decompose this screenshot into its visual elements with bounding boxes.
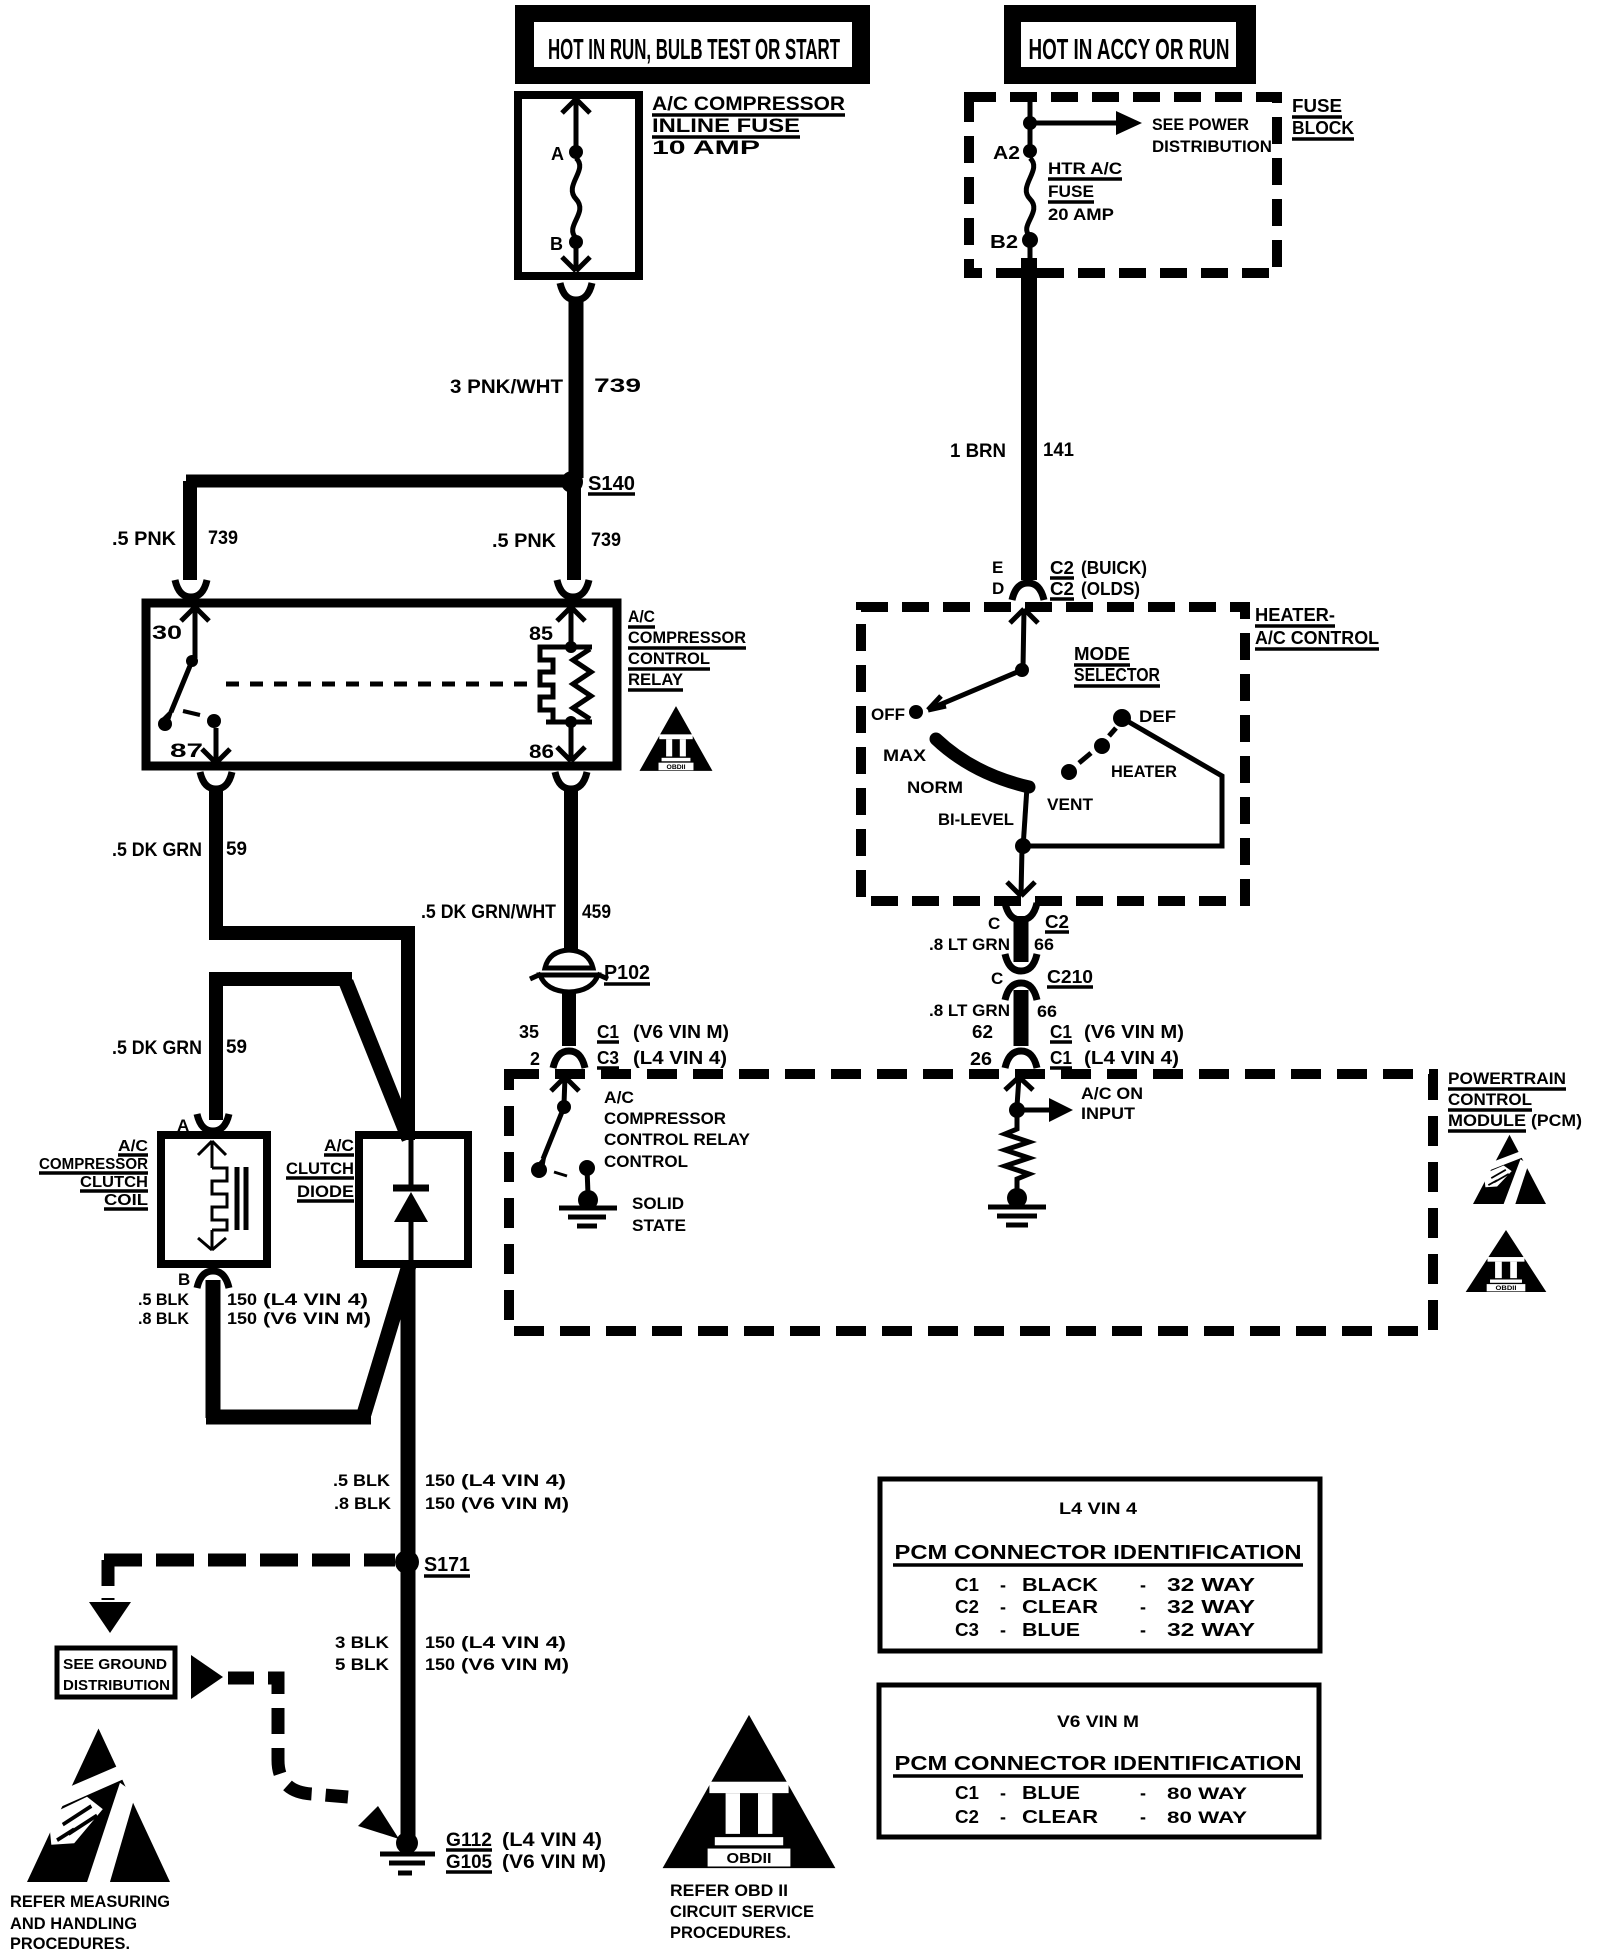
svg-text:COIL: COIL <box>104 1192 148 1209</box>
svg-text:A/C CONTROL: A/C CONTROL <box>1255 628 1379 648</box>
svg-text:VENT: VENT <box>1047 795 1094 814</box>
svg-text:(L4 VIN 4): (L4 VIN 4) <box>263 1290 368 1309</box>
ESD warning triangle (bottom left) <box>27 1729 170 1882</box>
svg-text:CONTROL RELAY: CONTROL RELAY <box>604 1130 751 1149</box>
svg-text:.5 BLK: .5 BLK <box>333 1471 391 1490</box>
contact OFF <box>909 705 923 719</box>
svg-text:DISTRIBUTION: DISTRIBUTION <box>63 1677 170 1694</box>
fuse HTR A/C 20 AMP element <box>1026 158 1034 236</box>
OBD II triangle (bottom middle) <box>663 1715 836 1868</box>
svg-text:CLUTCH: CLUTCH <box>80 1174 148 1191</box>
svg-text:S171: S171 <box>424 1554 470 1576</box>
svg-text:COMPRESSOR: COMPRESSOR <box>628 628 746 647</box>
svg-text:C: C <box>988 914 1000 933</box>
relay coil <box>540 641 592 728</box>
svg-text:PROCEDURES.: PROCEDURES. <box>670 1923 791 1942</box>
relay pin 86 arrow <box>557 722 585 761</box>
svg-text:85: 85 <box>529 624 553 645</box>
solid state ground <box>578 1190 598 1210</box>
contact DEF <box>1113 709 1131 727</box>
wire to PCM pin 35/2 <box>562 990 576 1046</box>
svg-text:.8 BLK: .8 BLK <box>138 1309 190 1328</box>
relay pin 30 arrow <box>181 607 209 658</box>
terminal B <box>569 235 583 249</box>
svg-text:-: - <box>1140 1597 1146 1617</box>
svg-text:C1: C1 <box>955 1783 979 1803</box>
relay contact 87 <box>207 714 221 728</box>
svg-text:C1: C1 <box>1050 1022 1072 1042</box>
svg-text:MAX: MAX <box>883 746 927 765</box>
wire branch to clutch coil <box>209 972 352 986</box>
wire into fuse block <box>1028 97 1033 152</box>
svg-text:66: 66 <box>1037 1002 1057 1021</box>
fuse F1 box A/C COMPRESSOR INLINE FUSE <box>518 95 639 276</box>
svg-text:OFF: OFF <box>871 705 905 724</box>
svg-text:3 BLK: 3 BLK <box>335 1633 390 1652</box>
svg-text:CONTROL: CONTROL <box>604 1152 688 1171</box>
svg-text:(L4 VIN 4): (L4 VIN 4) <box>461 1633 566 1652</box>
svg-text:26: 26 <box>970 1049 992 1069</box>
splice S171 <box>104 1554 395 1567</box>
svg-text:(V6 VIN M): (V6 VIN M) <box>461 1655 569 1674</box>
svg-text:REFER MEASURING: REFER MEASURING <box>10 1892 170 1911</box>
svg-text:1 BRN: 1 BRN <box>950 441 1006 462</box>
svg-text:SEE POWER: SEE POWER <box>1152 115 1249 134</box>
wire DEF to common node <box>1026 718 1222 846</box>
svg-text:MODE: MODE <box>1074 644 1130 664</box>
svg-text:DIODE: DIODE <box>297 1182 354 1201</box>
mode selector rotor arc <box>936 739 1029 787</box>
svg-text:59: 59 <box>226 1037 247 1058</box>
contact VENT <box>1061 764 1077 780</box>
svg-text:BLACK: BLACK <box>1022 1575 1098 1595</box>
dashed wire from see ground distribution <box>191 1655 223 1699</box>
svg-text:PROCEDURES.: PROCEDURES. <box>10 1934 130 1950</box>
relay pin 85 arrow <box>557 607 585 645</box>
svg-text:-: - <box>1000 1620 1006 1640</box>
label A/C COMPRESSOR INLINE FUSE 10 AMP <box>652 94 845 159</box>
svg-text:80 WAY: 80 WAY <box>1167 1784 1248 1803</box>
svg-text:66: 66 <box>1034 935 1054 954</box>
svg-text:C: C <box>991 969 1003 988</box>
connector below fuse F1 <box>560 283 592 300</box>
ground G112/G105 <box>396 1832 418 1854</box>
label A/C COMPRESSOR CONTROL RELAY <box>628 607 746 690</box>
svg-text:C210: C210 <box>1047 967 1093 987</box>
svg-text:.8 LT GRN: .8 LT GRN <box>929 1001 1010 1020</box>
svg-text:30: 30 <box>152 623 182 644</box>
svg-text:A/C: A/C <box>604 1088 634 1107</box>
svg-text:MODULE: MODULE <box>1448 1111 1526 1130</box>
svg-text:459: 459 <box>582 902 611 923</box>
svg-text:(L4 VIN 4): (L4 VIN 4) <box>461 1471 566 1490</box>
svg-text:(OLDS): (OLDS) <box>1081 579 1140 599</box>
svg-text:.5 DK GRN: .5 DK GRN <box>112 840 202 861</box>
wire .5 PNK 739 (to relay 85) <box>492 488 621 580</box>
svg-text:HOT IN RUN, BULB TEST OR START: HOT IN RUN, BULB TEST OR START <box>548 34 840 66</box>
svg-text:BLUE: BLUE <box>1022 1783 1080 1803</box>
svg-text:10 AMP: 10 AMP <box>652 138 761 159</box>
svg-text:E: E <box>992 558 1003 577</box>
contact HEATER <box>1094 738 1110 754</box>
svg-text:NORM: NORM <box>907 778 963 797</box>
PCM dashed box <box>509 1074 1433 1331</box>
svg-text:DISTRIBUTION: DISTRIBUTION <box>1152 137 1272 156</box>
terminal A <box>569 145 583 159</box>
PCM connector identification table (V6 VIN M) <box>879 1685 1319 1837</box>
wire .5 BLK 150 (to S171) <box>401 1262 416 1843</box>
connector C210 pin C <box>1005 954 1037 971</box>
svg-text:P102: P102 <box>604 962 650 984</box>
splice S140 <box>186 471 635 495</box>
mode selector blade to OFF <box>932 670 1022 708</box>
svg-text:(V6 VIN M): (V6 VIN M) <box>263 1309 371 1328</box>
svg-text:-: - <box>1000 1575 1006 1595</box>
svg-text:C1: C1 <box>955 1575 979 1595</box>
relay coupling dashed line <box>226 682 538 687</box>
svg-text:(V6 VIN M): (V6 VIN M) <box>1084 1022 1184 1042</box>
svg-text:141: 141 <box>1043 440 1074 461</box>
svg-text:87: 87 <box>170 741 203 762</box>
svg-text:COMPRESSOR: COMPRESSOR <box>604 1109 726 1128</box>
svg-text:5 BLK: 5 BLK <box>335 1655 390 1674</box>
ESD symbol (PCM) <box>1473 1135 1546 1204</box>
ground (PCM) <box>1007 1188 1027 1208</box>
banner HOT IN ACCY OR RUN <box>1004 5 1256 84</box>
svg-text:(L4 VIN 4): (L4 VIN 4) <box>502 1830 602 1851</box>
svg-text:DEF: DEF <box>1139 707 1176 726</box>
svg-text:C2: C2 <box>1050 558 1074 578</box>
svg-text:150: 150 <box>425 1633 455 1652</box>
svg-text:CLUTCH: CLUTCH <box>286 1159 354 1178</box>
svg-text:INLINE FUSE: INLINE FUSE <box>652 116 800 137</box>
svg-text:A/C COMPRESSOR: A/C COMPRESSOR <box>652 94 845 115</box>
PCM relay control driver <box>551 1077 579 1104</box>
svg-text:C2: C2 <box>955 1597 979 1617</box>
svg-text:HTR A/C: HTR A/C <box>1048 159 1122 178</box>
svg-text:CONTROL: CONTROL <box>628 649 710 668</box>
wire .5 PNK 739 (left branch to relay 30) <box>112 481 238 580</box>
fuse block dashed box <box>969 97 1277 273</box>
svg-text:POWERTRAIN: POWERTRAIN <box>1448 1069 1566 1088</box>
OBD II symbol (PCM) <box>1466 1230 1547 1292</box>
svg-text:A: A <box>551 144 564 164</box>
svg-text:80 WAY: 80 WAY <box>1167 1808 1248 1827</box>
svg-text:HEATER-: HEATER- <box>1255 605 1335 625</box>
svg-text:.8 LT GRN: .8 LT GRN <box>929 935 1010 954</box>
svg-text:BLOCK: BLOCK <box>1292 118 1354 138</box>
connector C2 pin C <box>1005 903 1037 920</box>
svg-text:32 WAY: 32 WAY <box>1167 1620 1255 1640</box>
svg-text:150: 150 <box>425 1471 455 1490</box>
connector P102 <box>530 950 650 992</box>
relay A/C COMPRESSOR CONTROL RELAY box <box>146 603 617 766</box>
svg-text:C3: C3 <box>597 1048 619 1068</box>
A/C clutch diode box <box>359 1135 468 1264</box>
terminal A2 <box>1023 144 1037 158</box>
svg-text:AND HANDLING: AND HANDLING <box>10 1914 137 1933</box>
svg-text:SOLID: SOLID <box>632 1194 684 1213</box>
svg-text:A/C: A/C <box>628 607 655 626</box>
svg-text:CLEAR: CLEAR <box>1022 1597 1098 1617</box>
svg-text:COMPRESSOR: COMPRESSOR <box>39 1156 148 1173</box>
svg-text:150: 150 <box>227 1290 257 1309</box>
PCM A/C ON input <box>1005 1077 1033 1106</box>
svg-text:(L4 VIN 4): (L4 VIN 4) <box>633 1048 727 1068</box>
svg-text:.5 DK GRN: .5 DK GRN <box>112 1038 202 1059</box>
svg-text:59: 59 <box>226 839 247 860</box>
svg-text:C2: C2 <box>955 1807 979 1827</box>
svg-text:(V6 VIN M): (V6 VIN M) <box>461 1494 569 1513</box>
svg-text:G112: G112 <box>446 1830 492 1851</box>
svg-text:INPUT: INPUT <box>1081 1104 1136 1123</box>
common node <box>1023 787 1027 848</box>
svg-text:S140: S140 <box>588 473 635 495</box>
svg-text:-: - <box>1000 1597 1006 1617</box>
svg-text:-: - <box>1000 1807 1006 1827</box>
svg-text:SEE GROUND: SEE GROUND <box>63 1656 167 1673</box>
svg-text:32 WAY: 32 WAY <box>1167 1597 1255 1617</box>
svg-text:.8 BLK: .8 BLK <box>334 1494 392 1513</box>
resistor <box>1005 1110 1029 1194</box>
heater-A/C control dashed box <box>861 607 1245 901</box>
svg-text:B: B <box>178 1270 190 1289</box>
svg-text:FUSE: FUSE <box>1292 96 1342 116</box>
svg-text:A/C: A/C <box>324 1136 354 1155</box>
svg-text:CONTROL: CONTROL <box>1448 1090 1532 1109</box>
svg-text:-: - <box>1140 1807 1146 1827</box>
svg-text:REFER OBD II: REFER OBD II <box>670 1881 788 1900</box>
svg-text:-: - <box>1140 1575 1146 1595</box>
banner HOT IN RUN, BULB TEST OR START <box>515 5 870 84</box>
svg-text:32 WAY: 32 WAY <box>1167 1575 1255 1595</box>
svg-text:2: 2 <box>530 1049 540 1069</box>
svg-text:BLUE: BLUE <box>1022 1620 1080 1640</box>
dashed links VENT-HEATER-DEF <box>1079 753 1091 763</box>
wire .8 LT GRN 66 <box>1014 916 1029 962</box>
svg-text:-: - <box>1000 1783 1006 1803</box>
svg-text:L4 VIN 4: L4 VIN 4 <box>1059 1499 1138 1518</box>
svg-text:(V6 VIN M): (V6 VIN M) <box>502 1852 606 1873</box>
svg-text:STATE: STATE <box>632 1216 686 1235</box>
svg-text:.5 BLK: .5 BLK <box>138 1290 190 1309</box>
svg-text:A/C ON: A/C ON <box>1081 1084 1143 1103</box>
svg-text:.5 DK GRN/WHT: .5 DK GRN/WHT <box>421 902 556 923</box>
svg-text:(V6 VIN M): (V6 VIN M) <box>633 1022 729 1042</box>
svg-text:CLEAR: CLEAR <box>1022 1807 1098 1827</box>
connector at relay pin 30 <box>175 580 207 597</box>
svg-text:RELAY: RELAY <box>628 670 684 689</box>
svg-text:739: 739 <box>591 530 621 551</box>
svg-text:150: 150 <box>425 1494 455 1513</box>
svg-text:B2: B2 <box>990 232 1018 252</box>
svg-text:.5 PNK: .5 PNK <box>492 531 556 552</box>
svg-text:.5 PNK: .5 PNK <box>112 529 176 550</box>
wire down to diode <box>401 926 415 1140</box>
terminal B exit arrow <box>562 242 590 271</box>
svg-text:CIRCUIT SERVICE: CIRCUIT SERVICE <box>670 1902 814 1921</box>
terminal B2 <box>1022 232 1038 248</box>
svg-text:20 AMP: 20 AMP <box>1048 205 1114 224</box>
wire .8 LT GRN 66 (lower) <box>1014 990 1029 1046</box>
wire .5 DK GRN/WHT 459 (relay 86 to PCM) <box>555 772 587 789</box>
OBD II symbol (relay) <box>640 706 713 771</box>
svg-text:FUSE: FUSE <box>1048 182 1094 201</box>
connector at relay pin 85 <box>557 580 589 597</box>
wire .5 DK GRN 59 (from relay 87) <box>200 772 232 789</box>
svg-text:739: 739 <box>594 376 641 397</box>
svg-text:-: - <box>1140 1783 1146 1803</box>
svg-text:HEATER: HEATER <box>1111 762 1177 781</box>
svg-text:PCM CONNECTOR IDENTIFICATION: PCM CONNECTOR IDENTIFICATION <box>895 1753 1302 1775</box>
svg-text:BI-LEVEL: BI-LEVEL <box>938 810 1014 829</box>
svg-text:A2: A2 <box>993 143 1020 163</box>
svg-text:C2: C2 <box>1050 579 1074 599</box>
fuse element F1 <box>572 158 580 238</box>
wire 1 BRN 141 <box>1021 258 1037 580</box>
svg-text:86: 86 <box>529 742 554 763</box>
svg-text:35: 35 <box>519 1022 539 1042</box>
svg-text:3 PNK/WHT: 3 PNK/WHT <box>450 377 563 398</box>
svg-text:62: 62 <box>972 1022 993 1042</box>
mode selector exit arrow <box>1007 848 1035 896</box>
svg-text:C1: C1 <box>1050 1048 1072 1068</box>
svg-text:(BUICK): (BUICK) <box>1081 558 1147 578</box>
see power distribution arrow <box>1023 111 1272 156</box>
svg-text:C3: C3 <box>955 1620 979 1640</box>
wire loop to diode <box>206 1410 371 1425</box>
svg-text:V6 VIN M: V6 VIN M <box>1057 1712 1139 1731</box>
svg-text:-: - <box>1140 1620 1146 1640</box>
svg-text:A/C: A/C <box>118 1138 148 1155</box>
svg-text:150: 150 <box>227 1309 257 1328</box>
relay switch blade <box>186 655 198 667</box>
svg-text:HOT IN ACCY OR RUN: HOT IN ACCY OR RUN <box>1029 34 1230 66</box>
PCM connector identification table (L4 VIN 4) <box>880 1479 1320 1651</box>
svg-text:739: 739 <box>208 528 238 549</box>
svg-text:C1: C1 <box>597 1022 619 1042</box>
svg-text:SELECTOR: SELECTOR <box>1074 665 1160 685</box>
svg-text:(PCM): (PCM) <box>1531 1111 1582 1130</box>
svg-text:150: 150 <box>425 1655 455 1674</box>
mode selector entry arrow <box>1010 609 1038 668</box>
svg-text:B: B <box>550 234 563 254</box>
wire jog right <box>209 926 415 940</box>
svg-text:PCM CONNECTOR IDENTIFICATION: PCM CONNECTOR IDENTIFICATION <box>895 1542 1302 1564</box>
see ground distribution label <box>57 1648 175 1697</box>
svg-text:D: D <box>992 579 1004 598</box>
svg-text:(L4 VIN 4): (L4 VIN 4) <box>1084 1048 1179 1068</box>
wire 3 PNK/WHT 739 <box>569 298 584 478</box>
svg-text:C2: C2 <box>1045 912 1069 932</box>
svg-text:G105: G105 <box>446 1852 492 1873</box>
